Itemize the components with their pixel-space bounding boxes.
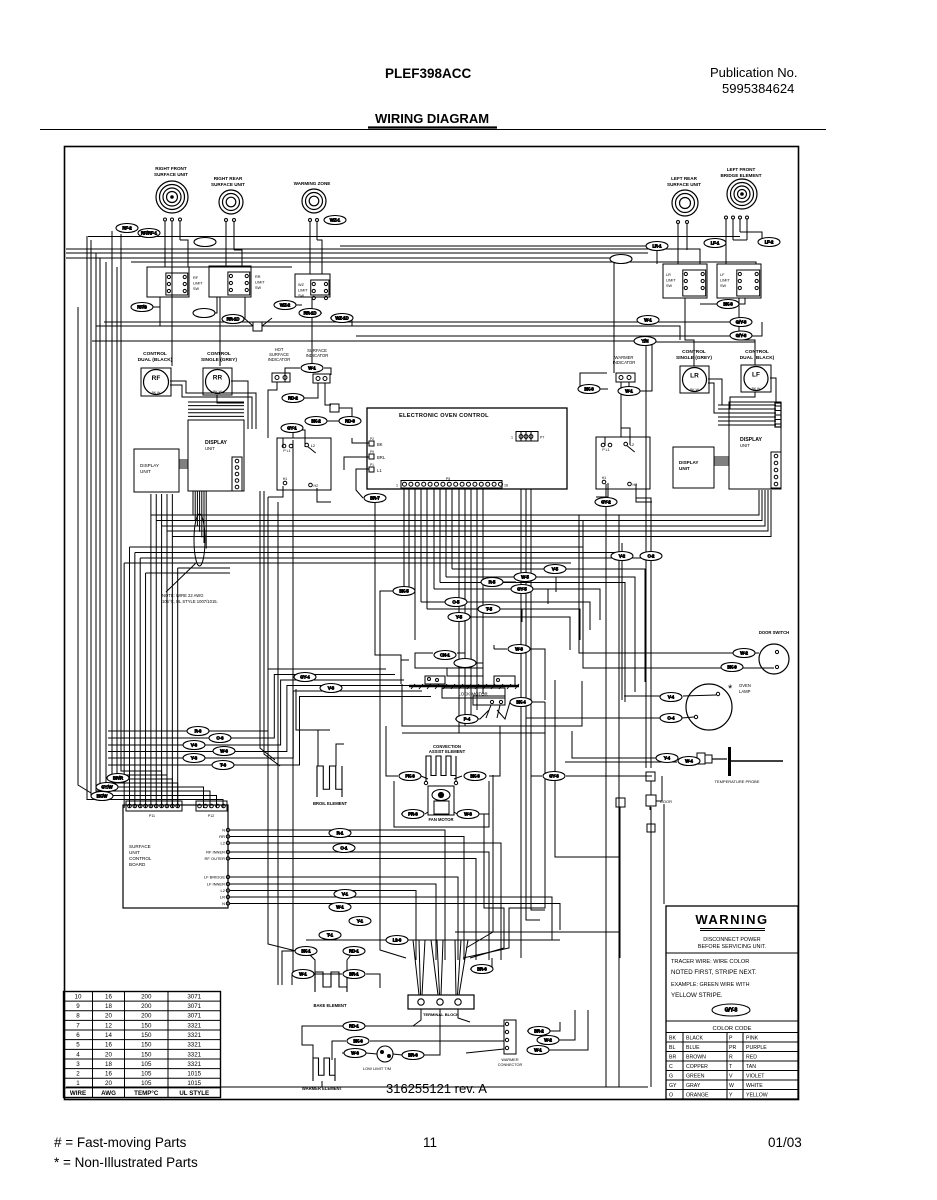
svg-text:20: 20: [105, 1013, 112, 1020]
wire mid ovals braid rows: [108, 669, 386, 731]
svg-text:3321: 3321: [187, 1042, 201, 1049]
svg-text:105°C, UL STYLE 1007/1015.: 105°C, UL STYLE 1007/1015.: [162, 599, 218, 604]
svg-text:316255121 rev. A: 316255121 rev. A: [386, 1081, 487, 1096]
svg-text:RF: RF: [152, 375, 161, 382]
oval W-1 at 303,974: [292, 970, 314, 979]
svg-text:RF/S: RF/S: [137, 305, 147, 310]
svg-text:W-6: W-6: [220, 749, 228, 754]
warmer element: [313, 1058, 335, 1081]
oval BK-4 at 521,702: [510, 698, 532, 707]
oval R-1 at 340,833: [329, 829, 351, 838]
svg-text:DISPLAY: DISPLAY: [140, 463, 159, 468]
oven light switch right: [596, 437, 650, 489]
wire middle horizontal bus lower: [129, 547, 131, 808]
limit switch warming zone: [295, 274, 330, 297]
svg-text:16: 16: [105, 1042, 112, 1049]
svg-text:BR/R: BR/R: [113, 776, 123, 781]
oval W-1 at 648,320: [637, 316, 659, 325]
svg-text:CONTROL: CONTROL: [129, 856, 152, 861]
wire display bundle through loop: [192, 491, 194, 515]
svg-text:OVEN: OVEN: [739, 683, 751, 688]
svg-text:COLOR CODE: COLOR CODE: [713, 1026, 752, 1032]
SUCB output pins: [226, 828, 229, 831]
svg-text:BK/W: BK/W: [97, 794, 108, 799]
svg-text:*: *: [728, 683, 733, 695]
wire center junction cross: [253, 322, 262, 331]
wire warmer circuit: [302, 1026, 343, 1060]
svg-text:WHITE: WHITE: [746, 1083, 763, 1089]
wire switch outputs row: [131, 297, 160, 307]
right display top ribbon connector: [775, 403, 781, 427]
display unit left large: [188, 420, 244, 491]
svg-text:1: 1: [511, 436, 513, 440]
svg-text:SW: SW: [666, 284, 673, 288]
svg-text:BK-6: BK-6: [353, 1039, 363, 1044]
svg-text:BOARD: BOARD: [129, 862, 146, 867]
oval LF-1 at 715,243: [704, 239, 726, 248]
svg-text:GY-1: GY-1: [287, 426, 297, 431]
oval BR-1 at 354,974: [343, 970, 365, 979]
svg-text:P: P: [729, 1036, 733, 1042]
svg-text:G/Y-8: G/Y-8: [736, 320, 747, 325]
control knob RF: [141, 368, 171, 396]
svg-text:PURPLE: PURPLE: [746, 1045, 767, 1051]
svg-text:V-6: V-6: [191, 743, 198, 748]
wire right harness verticals: [605, 484, 607, 1087]
svg-text:LIMIT: LIMIT: [298, 289, 308, 293]
svg-text:105: 105: [141, 1071, 152, 1078]
warming zone terminals: [309, 219, 312, 222]
svg-text:PINK: PINK: [746, 1036, 759, 1042]
svg-text:BLUE: BLUE: [686, 1045, 700, 1051]
oval LF-2 at 769,242: [758, 238, 780, 247]
svg-text:LF BRIDGE: LF BRIDGE: [204, 875, 225, 880]
left front coil terminals: [725, 216, 728, 219]
svg-text:BK-5: BK-5: [399, 589, 409, 594]
svg-text:W-1: W-1: [336, 905, 344, 910]
svg-text:BK W: BK W: [690, 388, 699, 392]
wire right front to control: [171, 300, 173, 366]
right front coil terminals: [164, 218, 167, 221]
wire L2 to warmer branch: [306, 939, 386, 941]
svg-text:W-1: W-1: [299, 972, 307, 977]
svg-text:G/Y-8: G/Y-8: [725, 1008, 738, 1014]
svg-text:RR: RR: [219, 834, 225, 839]
svg-text:3321: 3321: [187, 1032, 201, 1039]
control knob RR: [203, 368, 232, 395]
oval T-1 at 330,935: [319, 931, 341, 940]
oval W-6 at 355,1053: [344, 1049, 366, 1058]
svg-text:BRL: BRL: [377, 455, 386, 460]
svg-text:BROIL ELEMENT: BROIL ELEMENT: [313, 801, 348, 806]
svg-text:BEFORE SERVICING UNIT.: BEFORE SERVICING UNIT.: [698, 944, 766, 950]
coil left front bridge element: [727, 179, 757, 209]
svg-text:G: G: [669, 1074, 673, 1080]
oval W-3 at 519,649: [508, 645, 530, 654]
SUCB connector P11: [126, 801, 182, 811]
svg-text:RF: RF: [193, 276, 199, 280]
svg-text:PK-3: PK-3: [405, 774, 415, 779]
svg-text:YELLOW STRIPE.: YELLOW STRIPE.: [671, 992, 723, 999]
svg-text:LEFT FRONT: LEFT FRONT: [727, 167, 756, 172]
oval wire tag at 204,313: [193, 309, 215, 318]
svg-text:WZ-1: WZ-1: [330, 218, 341, 223]
oval PK-3 at 410,776: [399, 772, 421, 781]
oval R-5 at 492,582: [481, 578, 503, 587]
oval GY-2 at 606,502: [595, 498, 617, 507]
svg-text:GY-3: GY-3: [549, 774, 559, 779]
warning box: [666, 906, 798, 1099]
svg-text:V-2: V-2: [619, 554, 626, 559]
svg-text:18: 18: [105, 1003, 112, 1010]
svg-text:GRAY: GRAY: [686, 1083, 701, 1089]
svg-text:W-3: W-3: [464, 812, 472, 817]
oval wire tag at 621,259: [610, 255, 632, 264]
coil right front surface unit: [156, 181, 188, 213]
svg-text:BR: BR: [669, 1055, 676, 1061]
oval G/Y-8 at 741,335.5: [730, 331, 752, 340]
svg-text:1015: 1015: [187, 1080, 201, 1087]
svg-text:RR: RR: [255, 275, 261, 279]
wire gauge table: [64, 992, 221, 1098]
oval GY-5 at 522,589: [511, 585, 533, 594]
warning box divider 2: [666, 1020, 798, 1022]
wire left-center verticals: [260, 491, 275, 760]
svg-text:# = Fast-moving Parts: # = Fast-moving Parts: [54, 1135, 187, 1150]
svg-text:H2: H2: [313, 484, 318, 488]
svg-text:LF: LF: [752, 372, 760, 379]
svg-text:T-6: T-6: [220, 763, 227, 768]
svg-text:R: R: [729, 1055, 733, 1061]
svg-text:10: 10: [75, 993, 82, 1000]
svg-text:TEMPERATURE PROBE: TEMPERATURE PROBE: [714, 779, 759, 784]
wire left front switch to control: [739, 298, 755, 365]
wire bundle marker: [194, 514, 205, 566]
oval BK-8 at 728,304: [717, 300, 739, 309]
wire top feed 6: [340, 246, 657, 264]
oval V-2 at 622,556: [611, 552, 633, 561]
svg-text:Y: Y: [729, 1093, 733, 1099]
svg-text:LR: LR: [666, 273, 671, 277]
oval W-5 at 525,577: [514, 573, 536, 582]
limit switch left front: [717, 264, 761, 298]
svg-text:LIMIT: LIMIT: [193, 282, 203, 286]
oval W-2 at 744,653: [733, 649, 755, 658]
fan motor bracket: [394, 781, 489, 827]
svg-text:TERMINAL BLOCK: TERMINAL BLOCK: [423, 1012, 459, 1017]
wire fan motor feeds: [401, 813, 413, 815]
svg-text:GY-5: GY-5: [517, 587, 527, 592]
svg-text:LF: LF: [720, 273, 725, 277]
svg-text:CONTROL: CONTROL: [207, 351, 231, 357]
svg-text:H1: H1: [602, 476, 607, 480]
svg-text:SURFACE UNIT: SURFACE UNIT: [667, 182, 701, 187]
svg-text:PR: PR: [729, 1045, 736, 1051]
lock motor cam followers: [425, 676, 445, 684]
oval W-1 at 629,391: [618, 387, 640, 396]
svg-text:W-3: W-3: [515, 647, 523, 652]
heading underline: [368, 126, 497, 128]
svg-text:W-4: W-4: [685, 759, 693, 764]
svg-text:EXAMPLE: GREEN WIRE WITH: EXAMPLE: GREEN WIRE WITH: [671, 982, 750, 988]
svg-text:P7: P7: [540, 436, 544, 440]
svg-text:RD-1: RD-1: [349, 949, 359, 954]
svg-text:PLEF398ACC: PLEF398ACC: [385, 66, 472, 81]
svg-text:CN-1: CN-1: [440, 653, 450, 658]
svg-text:BK-3: BK-3: [470, 774, 480, 779]
svg-text:N: N: [222, 828, 225, 833]
svg-text:L2: L2: [221, 888, 226, 893]
low limit thermostat: [377, 1046, 393, 1062]
svg-text:Y-4: Y-4: [664, 756, 671, 761]
svg-text:W-1: W-1: [534, 1048, 542, 1053]
svg-text:VIOLET: VIOLET: [746, 1074, 765, 1080]
surface unit control board: [123, 805, 228, 908]
svg-text:BL: BL: [669, 1045, 675, 1051]
svg-text:BR-6: BR-6: [477, 967, 487, 972]
svg-text:GY/W: GY/W: [101, 785, 112, 790]
svg-text:NOTED FIRST, STRIPE NEXT.: NOTED FIRST, STRIPE NEXT.: [671, 969, 757, 976]
limit switch left rear: [663, 264, 707, 298]
svg-text:16: 16: [504, 484, 508, 488]
svg-text:CONNECTOR: CONNECTOR: [498, 1063, 523, 1067]
bake element: [315, 972, 347, 992]
svg-text:ORANGE: ORANGE: [686, 1093, 709, 1099]
svg-text:Publication No.: Publication No.: [710, 65, 797, 80]
svg-text:O-4: O-4: [668, 716, 676, 721]
svg-text:GREEN: GREEN: [686, 1074, 705, 1080]
svg-text:ASSIST ELEMENT: ASSIST ELEMENT: [429, 749, 466, 754]
svg-text:H1: H1: [283, 477, 288, 481]
svg-text:INDICATOR: INDICATOR: [306, 353, 329, 358]
wire left rear coil drops: [677, 223, 679, 264]
svg-text:150: 150: [141, 1022, 152, 1029]
svg-text:BK-1: BK-1: [301, 949, 311, 954]
svg-text:RED: RED: [746, 1055, 757, 1061]
oven light switch left: [277, 438, 331, 490]
oval RD-1 at 354,951: [343, 947, 365, 956]
svg-text:RR-1D: RR-1D: [227, 317, 240, 322]
wire top feed L1: [66, 249, 700, 264]
control knob LR: [680, 366, 709, 393]
oval O-1 at 344,848: [333, 844, 355, 853]
oval W-1 at 340,907: [329, 903, 351, 912]
wire knob LF harness: [770, 378, 776, 403]
oval wire tag at 465,663: [454, 659, 476, 668]
svg-text:W-2: W-2: [544, 1038, 552, 1043]
svg-text:RD-1: RD-1: [349, 1024, 359, 1029]
svg-text:LF INNER: LF INNER: [207, 882, 225, 887]
svg-text:BK-2: BK-2: [311, 419, 321, 424]
wire convection feeds: [421, 776, 428, 779]
svg-text:P11: P11: [149, 814, 155, 818]
oval O-6 at 220,738: [209, 734, 231, 743]
svg-text:WARMER: WARMER: [501, 1058, 518, 1062]
coil warming zone: [302, 189, 326, 213]
oval W-2 at 548,1040: [537, 1036, 559, 1045]
oval BR-6 at 482,969: [471, 965, 493, 974]
wire door area: [531, 775, 542, 777]
svg-text:RD-3: RD-3: [345, 419, 355, 424]
svg-text:V-3: V-3: [328, 686, 335, 691]
svg-text:200: 200: [141, 1003, 152, 1010]
svg-text:ELECTRONIC OVEN CONTROL: ELECTRONIC OVEN CONTROL: [399, 413, 489, 419]
svg-text:2: 2: [76, 1071, 80, 1078]
svg-text:RIGHT REAR: RIGHT REAR: [214, 176, 243, 181]
svg-text:O-6: O-6: [217, 736, 225, 741]
svg-text:WIRE: WIRE: [70, 1090, 86, 1097]
wire knob LR harness: [708, 379, 722, 405]
svg-text:W-2: W-2: [740, 651, 748, 656]
header rule: [40, 129, 826, 131]
svg-text:150: 150: [141, 1032, 152, 1039]
oval BK-9 at 732,667: [721, 663, 743, 672]
wire top feed L2: [66, 252, 648, 254]
door jumper block: [646, 795, 656, 806]
wire bottom bake circuit: [306, 951, 315, 972]
oval V-3 at 331,688: [320, 684, 342, 693]
svg-text:BROWN: BROWN: [686, 1055, 706, 1061]
oval RF/S at 142,307: [131, 303, 153, 312]
wire top feed 0: [88, 236, 740, 238]
oval WZ-1 at 335,220: [324, 216, 346, 225]
svg-text:BK W: BK W: [752, 387, 761, 391]
junction square mid: [330, 404, 339, 412]
svg-text:150: 150: [141, 1051, 152, 1058]
wire sucb output stubs: [230, 830, 445, 960]
svg-text:LR: LR: [220, 895, 225, 900]
display unit right large: [729, 402, 781, 489]
wire probe feed: [572, 731, 656, 758]
svg-text:105: 105: [141, 1061, 152, 1068]
svg-text:COPPER: COPPER: [686, 1064, 708, 1070]
svg-text:WIRING DIAGRAM: WIRING DIAGRAM: [375, 111, 489, 126]
svg-text:RR-1D: RR-1D: [304, 311, 317, 316]
svg-text:3321: 3321: [187, 1051, 201, 1058]
svg-text:12: 12: [105, 1022, 112, 1029]
junction block mid right: [647, 824, 655, 832]
svg-text:5995384624: 5995384624: [722, 81, 794, 96]
temperature probe: [697, 753, 705, 764]
wire lock bracket left: [401, 660, 409, 684]
svg-text:RF OUTER: RF OUTER: [205, 856, 226, 861]
wire knob RF harness: [170, 381, 256, 429]
warmer indicator lamp: [616, 373, 635, 382]
electronic oven control U1: [367, 408, 567, 489]
svg-text:RD-2: RD-2: [288, 396, 298, 401]
tracer wire example oval G/Y-8: [712, 1004, 750, 1016]
svg-text:W: W: [729, 1083, 734, 1089]
svg-text:BK-8: BK-8: [723, 302, 733, 307]
junction block upper: [646, 772, 655, 781]
svg-text:LIMIT: LIMIT: [255, 281, 265, 285]
svg-text:P L1: P L1: [283, 449, 290, 453]
oven lamp DS1: [686, 684, 732, 730]
oval BK-3 at 475,776: [464, 772, 486, 781]
oval WZ-1D at 342,318: [331, 314, 353, 323]
svg-text:SINGLE (GREY): SINGLE (GREY): [201, 357, 237, 363]
svg-text:T-1: T-1: [327, 933, 334, 938]
oval R-6 at 198,731: [187, 727, 209, 736]
wire left border drop: [78, 307, 91, 793]
svg-text:LF-1: LF-1: [711, 241, 720, 246]
svg-text:LAMP: LAMP: [739, 689, 751, 694]
oval RR-1D at 233,319: [222, 315, 244, 324]
svg-text:6: 6: [76, 1032, 80, 1039]
svg-text:LF-2: LF-2: [765, 240, 774, 245]
svg-text:UL STYLE: UL STYLE: [179, 1090, 209, 1097]
right display pin header: [771, 452, 781, 488]
svg-text:BR-2: BR-2: [534, 1029, 544, 1034]
oval BK-6 at 358,1041: [347, 1037, 369, 1046]
svg-text:SURFACE UNIT: SURFACE UNIT: [211, 182, 245, 187]
svg-text:LOW LIMIT T/M: LOW LIMIT T/M: [363, 1066, 391, 1071]
svg-text:Y/N: Y/N: [642, 339, 649, 344]
svg-text:BK-9: BK-9: [727, 665, 737, 670]
wire surface ind to eoc: [339, 408, 361, 421]
svg-text:W-5: W-5: [521, 575, 529, 580]
svg-text:3321: 3321: [187, 1022, 201, 1029]
svg-text:UNIT: UNIT: [740, 443, 750, 448]
svg-text:BLACK: BLACK: [686, 1036, 704, 1042]
oval BR-7 at 375,498: [364, 494, 386, 503]
oval Y-4 at 667,758: [656, 754, 678, 763]
wire left rear switch to control: [685, 298, 694, 366]
svg-text:SW: SW: [720, 284, 727, 288]
svg-text:LIMIT: LIMIT: [720, 279, 730, 283]
terminal block wire fan: [413, 940, 468, 995]
wire oval BR-7 drop: [375, 503, 401, 660]
svg-text:BK-4: BK-4: [516, 700, 526, 705]
oval W-1 at 538,1050: [527, 1046, 549, 1055]
warmer connector: [504, 1020, 516, 1054]
svg-text:BR-6: BR-6: [408, 1053, 418, 1058]
oval W-1 at 312,368: [301, 364, 323, 373]
wire door switch feeds: [579, 515, 759, 653]
svg-text:R-6: R-6: [195, 729, 202, 734]
svg-text:BK: BK: [377, 442, 383, 447]
svg-text:N: N: [222, 901, 225, 906]
oval GY-1 at 292,428: [281, 424, 303, 433]
wire left light switch leads: [282, 438, 284, 448]
broil element: [317, 766, 342, 797]
wire hot surface indicator leads: [268, 382, 277, 438]
svg-text:CONTROL: CONTROL: [143, 351, 167, 357]
svg-text:20: 20: [105, 1080, 112, 1087]
svg-text:G/Y-8: G/Y-8: [736, 333, 747, 338]
wire warmer ind feed: [640, 342, 652, 391]
control knob LF: [741, 365, 771, 392]
svg-text:TRACER WIRE: WIRE COLOR: TRACER WIRE: WIRE COLOR: [671, 959, 749, 965]
ribbon cable right display: [714, 457, 729, 465]
svg-text:1015: 1015: [187, 1071, 201, 1078]
coil right rear surface unit: [219, 190, 243, 214]
svg-text:BK-8: BK-8: [584, 387, 594, 392]
svg-text:RF-2: RF-2: [122, 226, 132, 231]
svg-text:LIMIT: LIMIT: [666, 279, 676, 283]
oval BR/R at 118,778: [107, 774, 129, 783]
wire P7 drops: [520, 432, 522, 442]
svg-text:WARNING: WARNING: [695, 912, 768, 927]
oval W-6 at 224,751: [213, 747, 235, 756]
svg-text:AWG: AWG: [101, 1090, 116, 1097]
svg-text:105: 105: [141, 1080, 152, 1087]
wire warmer indicator leads: [620, 382, 622, 437]
oval W-4 at 689,761: [678, 757, 700, 766]
wire right front coil drops: [164, 221, 166, 267]
terminal block TB1: [408, 995, 474, 1009]
svg-text:V: V: [729, 1074, 733, 1080]
